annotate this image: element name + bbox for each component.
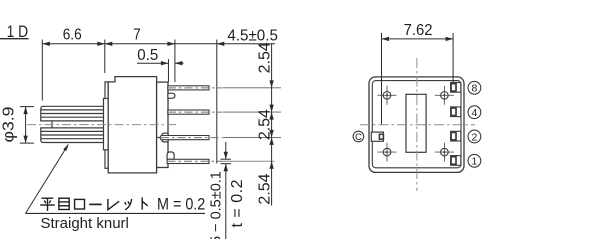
pin number 1 [468, 154, 481, 167]
ー [89, 203, 102, 205]
shaft knurled upper block [41, 106, 106, 121]
pin A centerline [168, 87, 223, 89]
svg-text:1: 1 [471, 156, 477, 168]
main centerline [27, 124, 179, 126]
pin C collar [162, 133, 168, 142]
pin number 8 [468, 81, 481, 94]
wire top dimension line [42, 43, 275, 45]
dimension 6.6 [42, 42, 105, 46]
pin D centerline [168, 160, 223, 162]
pin number 4 [468, 106, 481, 119]
svg-text:t = 0.2: t = 0.2 [229, 179, 246, 227]
body outer (rear view) [369, 77, 464, 172]
pin D [167, 159, 209, 163]
left tab (rear view) [371, 132, 383, 141]
wire ext line 7.62 right [452, 33, 454, 84]
knurl leader line [26, 147, 67, 214]
crosshair pin top-left [378, 86, 397, 105]
svg-text:6.6: 6.6 [63, 27, 82, 44]
svg-text:8: 8 [471, 83, 477, 95]
ト [141, 197, 143, 209]
tick pin D top [221, 158, 232, 160]
crosshair pin bottom-right [435, 143, 454, 162]
body (side view) [108, 77, 156, 173]
dimension chain 2.54 vertical line [271, 44, 273, 206]
flange [157, 82, 168, 167]
shaft knurled lower block [41, 128, 106, 143]
tick pin D bottom [221, 163, 232, 165]
label 平目ローレット (drawn strokes) [40, 197, 148, 211]
wire ext line pin end [216, 40, 218, 164]
svg-text:4: 4 [471, 107, 477, 119]
center slot [406, 94, 426, 152]
pin number 2 [468, 130, 481, 143]
レ [108, 199, 119, 210]
pin C [160, 136, 209, 140]
ロ [75, 199, 85, 209]
tab above pin D [167, 152, 174, 159]
terminal 8 [451, 83, 461, 93]
pin C ext line right [223, 136, 281, 138]
wire ext line seat plane [174, 40, 176, 83]
node label 1D [0, 22, 29, 41]
svg-text:7.62: 7.62 [404, 22, 433, 39]
wire ext line left shaft tip [41, 40, 43, 101]
svg-text:φ3.9: φ3.9 [1, 106, 18, 142]
wire ext line body front [104, 40, 106, 74]
body inner [372, 81, 461, 168]
symbol © [353, 131, 364, 142]
dimension φ3.9 [25, 107, 27, 143]
terminal 1 [451, 156, 461, 166]
pin B centerline [168, 111, 223, 113]
svg-text:0.5: 0.5 [137, 47, 158, 64]
svg-text:2.54: 2.54 [256, 109, 273, 140]
dimension t line [225, 142, 227, 159]
svg-text:2: 2 [471, 131, 477, 143]
pin D centerline extension [223, 160, 275, 162]
pin A [168, 86, 209, 90]
vertical centerline [416, 58, 418, 191]
dimension 4.5±0.5 [217, 42, 225, 46]
pin C connector line [157, 137, 161, 139]
svg-text:7: 7 [133, 27, 141, 44]
svg-text:2.54: 2.54 [256, 173, 273, 204]
pin C centerline [161, 137, 223, 139]
wire ext line 7.62 left [381, 33, 383, 124]
ッ [125, 202, 126, 205]
crosshair pin bottom-left [378, 143, 397, 162]
front plate [105, 82, 108, 168]
svg-text:Straight knurl: Straight knurl [41, 215, 129, 232]
horizontal centerline [360, 124, 475, 126]
terminal 4 [451, 107, 461, 117]
svg-text:4.5±0.5: 4.5±0.5 [227, 27, 278, 44]
tab under pin A [168, 93, 175, 98]
dimension 7 [105, 42, 175, 46]
shaft slot floor [51, 121, 53, 128]
svg-text:C: C [355, 132, 362, 143]
crosshair pin top-right [435, 86, 454, 105]
terminal 2 [451, 131, 461, 141]
wire ext line flange edge [167, 59, 169, 82]
svg-text:5 − 0.5±0.1: 5 − 0.5±0.1 [209, 171, 225, 239]
pin B [168, 110, 209, 114]
pin B ext line right [223, 111, 281, 113]
knurl leader underline [26, 212, 206, 214]
平 [42, 197, 54, 199]
svg-text:M = 0.2: M = 0.2 [157, 196, 205, 214]
dimension 0.5 [137, 62, 168, 64]
washer [104, 99, 109, 150]
pin A ext line right [223, 87, 281, 89]
目 [59, 198, 69, 209]
svg-text:2.54: 2.54 [256, 42, 273, 73]
